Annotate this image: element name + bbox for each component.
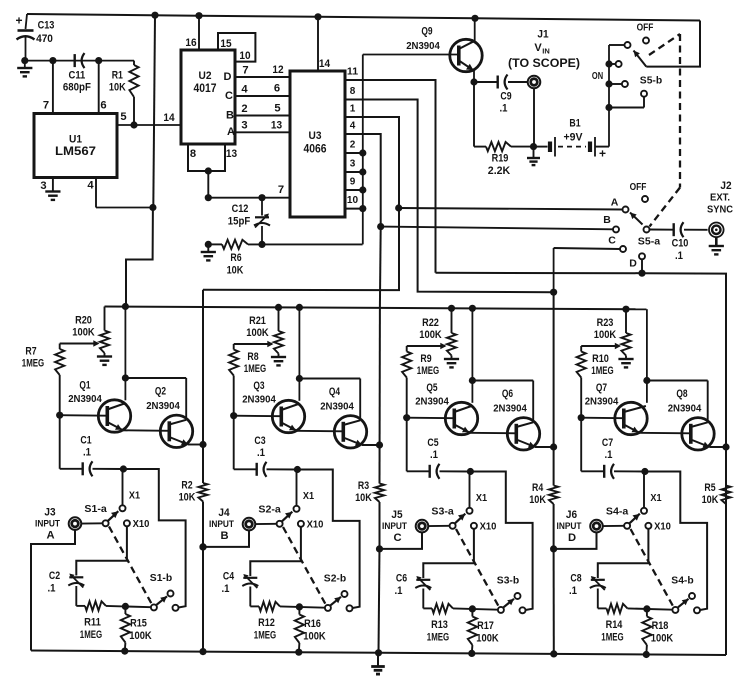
svg-text:X10: X10: [133, 518, 150, 530]
capacitor C11: [63, 53, 91, 93]
svg-text:2N3904: 2N3904: [68, 393, 102, 405]
switch S3-a: [431, 505, 496, 532]
svg-text:Q7: Q7: [596, 382, 607, 394]
svg-text:4017: 4017: [194, 83, 217, 95]
svg-text:10: 10: [239, 50, 250, 62]
svg-text:3: 3: [241, 119, 247, 131]
wire S-a dashed link: [631, 529, 674, 607]
connector J6: [557, 509, 625, 544]
svg-text:1: 1: [350, 103, 356, 114]
resistor R2: [179, 479, 208, 503]
svg-text:+: +: [599, 147, 606, 161]
svg-text:4: 4: [87, 179, 94, 191]
svg-text:.1: .1: [605, 449, 613, 461]
wire channel-3 rail: [550, 289, 557, 658]
svg-text:R11: R11: [84, 616, 101, 628]
svg-text:C12: C12: [232, 203, 249, 215]
svg-text:.1: .1: [675, 250, 683, 262]
wire channel supply rail: [105, 307, 647, 310]
svg-text:10K: 10K: [702, 494, 719, 506]
svg-text:2N3904: 2N3904: [668, 402, 702, 414]
svg-text:SYNC: SYNC: [707, 203, 733, 215]
svg-text:S5-b: S5-b: [640, 74, 662, 86]
svg-text:10K: 10K: [227, 264, 244, 276]
pins 11/8/1/4/2/3/9/10 (U3): [345, 66, 363, 208]
svg-text:X1: X1: [129, 489, 140, 501]
wire C13 node row: [25, 57, 134, 64]
svg-text:J6: J6: [566, 509, 577, 521]
svg-text:10K: 10K: [355, 492, 372, 504]
resistor R16: [295, 603, 326, 656]
op-amp U1 LM567: [34, 114, 117, 178]
ground (R19/J1): [527, 143, 540, 165]
svg-text:J4: J4: [218, 507, 230, 519]
node cap junction: [641, 468, 648, 475]
svg-text:6: 6: [274, 82, 280, 94]
capacitor C13: [15, 14, 54, 61]
switch S5-b: [592, 21, 700, 147]
svg-text:.1: .1: [222, 583, 230, 595]
capacitor C12: [228, 198, 270, 245]
svg-text:4: 4: [241, 83, 248, 95]
transistor Q8 2N3904: [668, 388, 726, 450]
switch S5-a: [630, 181, 661, 248]
capacitor C2: [48, 526, 127, 606]
wire channel output rail: [550, 443, 557, 450]
svg-text:2N3904: 2N3904: [146, 400, 180, 412]
svg-text:1MEG: 1MEG: [417, 365, 440, 377]
svg-text:100K: 100K: [246, 327, 268, 339]
capacitor C7: [581, 418, 645, 479]
switch S3-b: [497, 574, 526, 613]
wire collector rail: [296, 304, 360, 421]
wire jack shield: [199, 530, 249, 550]
svg-text:2N3904: 2N3904: [242, 393, 276, 405]
svg-text:8: 8: [190, 148, 196, 160]
svg-text:R18: R18: [652, 620, 669, 632]
wire channel-4 rail: [725, 274, 727, 655]
svg-text:C9: C9: [500, 90, 511, 102]
svg-text:C1: C1: [80, 434, 91, 446]
svg-text:R13: R13: [431, 619, 448, 631]
connector J4: [209, 507, 277, 542]
svg-text:A: A: [611, 196, 619, 208]
svg-text:2N3904: 2N3904: [415, 395, 449, 407]
svg-text:ON: ON: [592, 70, 603, 82]
svg-text:7: 7: [242, 64, 248, 76]
wire collector rail: [122, 303, 186, 420]
resistor R9: [402, 346, 439, 418]
svg-text:16: 16: [185, 37, 196, 49]
wire X1 tap: [641, 472, 662, 514]
svg-text:680pF: 680pF: [63, 81, 91, 93]
connector J1: [508, 28, 580, 146]
svg-text:4066: 4066: [304, 144, 327, 156]
svg-text:11: 11: [347, 66, 359, 77]
svg-text:C6: C6: [396, 572, 407, 584]
wire Vcc drop rail: [126, 15, 156, 306]
svg-text:Q3: Q3: [253, 380, 264, 392]
svg-text:R22: R22: [422, 317, 439, 329]
svg-text:C8: C8: [570, 572, 581, 584]
wire sync C: [554, 234, 626, 292]
svg-text:R20: R20: [75, 314, 92, 326]
capacitor C8: [569, 529, 648, 609]
svg-text:S1-a: S1-a: [84, 503, 107, 515]
resistor R15: [121, 603, 152, 655]
svg-text:10K: 10K: [529, 494, 546, 506]
wire emitter-base: [296, 430, 343, 433]
svg-text:INPUT: INPUT: [209, 519, 234, 530]
wire channel-1 rail: [199, 290, 206, 655]
node A (U2 pin3 to U3 pin13): [227, 119, 290, 138]
svg-text:INPUT: INPUT: [382, 521, 407, 532]
svg-text:B1: B1: [569, 117, 580, 129]
svg-text:2N3904: 2N3904: [585, 395, 619, 407]
svg-text:S4-a: S4-a: [606, 505, 629, 517]
svg-text:J3: J3: [44, 506, 55, 518]
svg-text:U3: U3: [309, 130, 322, 142]
pin 6 (U1): [99, 61, 107, 114]
wire summing bus: [359, 55, 366, 245]
svg-text:1MEG: 1MEG: [601, 631, 624, 643]
svg-text:OFF: OFF: [637, 21, 654, 33]
svg-text:X10: X10: [307, 518, 324, 530]
switch S1-b: [150, 572, 179, 611]
pin 5 (U1) wire: [117, 111, 181, 129]
svg-text:4: 4: [350, 120, 356, 131]
svg-text:1MEG: 1MEG: [427, 631, 450, 643]
svg-text:100K: 100K: [303, 630, 325, 642]
svg-text:X1: X1: [650, 492, 661, 504]
wire sync B: [377, 214, 619, 233]
connector J2: [707, 180, 733, 237]
svg-text:R19: R19: [492, 152, 509, 164]
wire collector rail: [469, 305, 533, 423]
svg-text:D: D: [568, 532, 576, 544]
capacitor C5: [407, 418, 471, 479]
svg-text:Q6: Q6: [502, 388, 513, 400]
transistor Q6 2N3904: [493, 388, 553, 450]
svg-text:R5: R5: [704, 482, 715, 494]
potentiometer R20: [60, 307, 112, 365]
svg-text:.1: .1: [500, 102, 508, 114]
ground (J2): [709, 237, 724, 254]
svg-text:12: 12: [272, 64, 283, 76]
svg-text:S4-b: S4-b: [671, 574, 693, 586]
wire emitter-base: [639, 432, 691, 435]
svg-text:2N3904: 2N3904: [493, 402, 527, 414]
transistor Q5 2N3904: [403, 382, 478, 435]
wire sync D: [629, 253, 645, 277]
ground (C13): [17, 57, 32, 76]
svg-text:R2: R2: [181, 479, 192, 491]
svg-text:2: 2: [350, 139, 356, 150]
svg-text:R1: R1: [112, 69, 123, 81]
svg-text:EXT.: EXT.: [710, 191, 730, 203]
pin 15-10 loop (U2): [218, 33, 255, 62]
wire U3 pin4 to channel B rail: [363, 134, 381, 227]
counter U2 4017: [181, 50, 235, 144]
potentiometer R21: [234, 304, 286, 366]
svg-text:S2-a: S2-a: [258, 503, 281, 515]
svg-text:100K: 100K: [419, 329, 441, 341]
svg-text:J5: J5: [391, 509, 402, 521]
svg-text:S2-b: S2-b: [324, 572, 346, 584]
svg-text:5: 5: [274, 102, 280, 114]
wire U3 pin8 to C-bus: [363, 100, 554, 293]
node C (U2 pin4 to U3 pin6): [225, 82, 290, 101]
wire emitter-base: [469, 432, 516, 435]
svg-text:100K: 100K: [651, 632, 673, 644]
resistor R19: [474, 82, 534, 177]
svg-text:Q2: Q2: [155, 385, 166, 397]
pin 4 (U1) wire: [87, 178, 152, 208]
svg-text:V: V: [534, 42, 542, 54]
node B (U2 pin2 to U3 pin5): [226, 102, 290, 121]
svg-text:7: 7: [278, 184, 284, 196]
pin 7 (U3) wire: [205, 171, 290, 201]
svg-text:470: 470: [36, 33, 53, 45]
svg-text:8: 8: [350, 86, 356, 97]
resistor R18: [642, 605, 673, 658]
svg-text:14: 14: [163, 112, 175, 124]
svg-text:U2: U2: [199, 70, 212, 82]
svg-text:1MEG: 1MEG: [244, 363, 267, 375]
svg-text:X10: X10: [480, 520, 497, 532]
resistor R7: [22, 344, 65, 416]
svg-text:C2: C2: [49, 570, 60, 582]
svg-text:100K: 100K: [129, 630, 151, 642]
svg-text:R6: R6: [230, 252, 241, 264]
svg-text:INPUT: INPUT: [35, 518, 60, 529]
svg-text:C: C: [393, 532, 401, 544]
svg-text:Q4: Q4: [329, 386, 341, 398]
pin 16 (U2): [185, 16, 199, 50]
wire channel output rail: [722, 443, 729, 450]
wire jack shield: [31, 530, 75, 651]
capacitor C4: [222, 527, 301, 607]
svg-text:+9V: +9V: [564, 131, 584, 143]
wire X1 tap: [467, 472, 488, 514]
svg-text:13: 13: [271, 119, 282, 131]
svg-text:2N3904: 2N3904: [406, 40, 440, 52]
svg-text:B: B: [220, 530, 228, 542]
svg-text:1MEG: 1MEG: [22, 357, 45, 369]
svg-text:A: A: [227, 126, 235, 138]
svg-text:J2: J2: [720, 180, 731, 192]
svg-text:S1-b: S1-b: [150, 572, 172, 584]
capacitor C10: [649, 222, 707, 262]
svg-text:R8: R8: [247, 351, 258, 363]
potentiometer R23: [581, 306, 633, 368]
svg-text:C11: C11: [69, 69, 86, 81]
svg-text:Q9: Q9: [421, 25, 432, 37]
resistor R6: [208, 240, 362, 277]
svg-text:3: 3: [350, 158, 356, 169]
svg-text:R10: R10: [592, 353, 609, 365]
svg-text:100K: 100K: [476, 632, 498, 644]
resistor R4: [529, 482, 558, 506]
svg-text:A: A: [46, 529, 54, 541]
wire bypass to S-b: [123, 469, 185, 608]
svg-text:3: 3: [40, 180, 46, 192]
svg-text:1MEG: 1MEG: [80, 629, 103, 641]
svg-text:C10: C10: [672, 237, 689, 249]
pin 7 (U1): [43, 61, 53, 114]
pin 14 (U3): [318, 17, 331, 71]
wire S-a dashed link: [109, 527, 152, 605]
wire bypass to S-b: [470, 472, 532, 611]
svg-text:7: 7: [43, 99, 49, 111]
transistor Q1 2N3904: [56, 379, 131, 432]
wire channel output rail: [376, 441, 383, 448]
svg-text:S3-a: S3-a: [431, 505, 454, 517]
capacitor C6: [395, 529, 474, 609]
svg-text:R15: R15: [130, 617, 147, 629]
wire bypass to S-b: [297, 470, 359, 609]
svg-text:Q8: Q8: [676, 388, 687, 400]
transistor Q7 2N3904: [578, 382, 648, 435]
svg-text:X10: X10: [654, 520, 671, 532]
wire S-a dashed link: [283, 527, 326, 605]
svg-text:13: 13: [226, 148, 237, 160]
resistor R12: [250, 602, 325, 642]
svg-text:14: 14: [319, 58, 331, 70]
resistor R1: [109, 61, 139, 125]
transistor Q9 2N3904: [363, 18, 482, 82]
svg-text:R17: R17: [477, 620, 494, 632]
svg-text:IN: IN: [542, 46, 550, 55]
capacitor C3: [234, 416, 298, 477]
svg-text:+: +: [15, 14, 22, 28]
svg-text:R4: R4: [532, 482, 544, 494]
node Q9 emitter: [470, 78, 477, 85]
svg-text:X1: X1: [476, 492, 487, 504]
switch S2-b: [324, 572, 353, 611]
svg-text:6: 6: [100, 99, 106, 111]
svg-text:10K: 10K: [109, 81, 126, 93]
svg-text:R14: R14: [606, 619, 623, 631]
svg-text:9: 9: [350, 176, 356, 187]
connector J3: [35, 506, 103, 541]
wire ground rail: [31, 651, 726, 656]
svg-text:2.2K: 2.2K: [488, 165, 510, 177]
capacitor C9: [474, 75, 528, 115]
svg-text:.1: .1: [569, 585, 577, 597]
svg-text:LM567: LM567: [55, 144, 96, 158]
svg-text:X1: X1: [303, 490, 314, 502]
svg-text:R7: R7: [25, 345, 36, 357]
wire S-a dashed link: [456, 529, 499, 607]
resistor R10: [577, 346, 614, 418]
svg-text:2: 2: [241, 103, 247, 115]
wire S5 dashed link: [649, 34, 680, 227]
svg-text:B: B: [603, 214, 611, 226]
svg-text:100K: 100K: [594, 329, 616, 341]
node D (U2 pin7 to U3 pin12): [224, 64, 290, 83]
resistor R11: [76, 601, 151, 641]
svg-text:.1: .1: [48, 582, 56, 594]
wire jack shield: [550, 532, 597, 552]
wire sync A: [395, 196, 628, 212]
svg-text:C13: C13: [38, 19, 55, 31]
resistor R14: [598, 604, 673, 644]
resistor R17: [468, 605, 499, 657]
svg-text:INPUT: INPUT: [557, 521, 582, 532]
ground (R6): [201, 198, 216, 261]
svg-text:R21: R21: [249, 315, 266, 327]
svg-text:J1: J1: [537, 28, 548, 40]
wire U3 pin11 to D-bus: [363, 80, 436, 273]
transistor Q2 2N3904: [146, 385, 203, 447]
svg-text:Q5: Q5: [426, 382, 437, 394]
wire emitter-base: [122, 429, 169, 432]
svg-text:R23: R23: [597, 317, 614, 329]
svg-text:10: 10: [347, 195, 359, 206]
resistor R13: [423, 604, 498, 644]
svg-text:OFF: OFF: [630, 181, 647, 193]
wire U3 pin1 to A-bus: [203, 117, 399, 290]
svg-text:.1: .1: [257, 447, 265, 459]
capacitor C1: [60, 415, 124, 476]
svg-text:D: D: [629, 257, 637, 269]
svg-text:S3-b: S3-b: [497, 574, 519, 586]
svg-text:S5-a: S5-a: [638, 235, 661, 247]
svg-text:.1: .1: [395, 585, 403, 597]
svg-text:D: D: [224, 71, 232, 83]
resistor R5: [702, 482, 731, 506]
wire X1 tap: [294, 470, 315, 512]
node cap junction: [120, 465, 127, 472]
node cap junction: [467, 468, 474, 475]
svg-text:R16: R16: [304, 618, 321, 630]
wire channel-2 rail: [375, 227, 382, 657]
transistor Q3 2N3904: [230, 380, 305, 433]
wire collector rail: [643, 309, 707, 422]
svg-text:C: C: [608, 234, 616, 246]
svg-text:15: 15: [220, 38, 231, 50]
svg-text:.1: .1: [430, 449, 438, 461]
svg-text:R9: R9: [420, 353, 431, 365]
svg-text:100K: 100K: [72, 326, 94, 338]
svg-text:15pF: 15pF: [228, 215, 251, 227]
svg-text:C3: C3: [254, 435, 265, 447]
resistor R3: [355, 480, 384, 504]
potentiometer R22: [407, 305, 459, 368]
resistor R8: [229, 344, 266, 416]
svg-text:1MEG: 1MEG: [254, 629, 277, 641]
svg-text:C: C: [225, 90, 233, 102]
svg-text:2N3904: 2N3904: [320, 400, 354, 412]
svg-text:.1: .1: [83, 446, 91, 458]
svg-text:B: B: [226, 109, 234, 121]
pin 3 (U1) ground: [40, 178, 60, 200]
switch S4-a: [606, 505, 671, 532]
ground (main): [371, 653, 385, 674]
transistor Q4 2N3904: [320, 386, 379, 448]
svg-text:R3: R3: [358, 480, 369, 492]
svg-text:Q1: Q1: [79, 379, 90, 391]
wire X1 tap: [120, 469, 141, 511]
svg-text:R12: R12: [258, 617, 275, 629]
switch S4-b: [671, 574, 700, 613]
svg-text:C5: C5: [427, 437, 438, 449]
wire D bus: [436, 273, 727, 655]
switch S1-a: [84, 503, 149, 530]
svg-text:C4: C4: [223, 570, 235, 582]
switch S2-a: [258, 503, 323, 530]
